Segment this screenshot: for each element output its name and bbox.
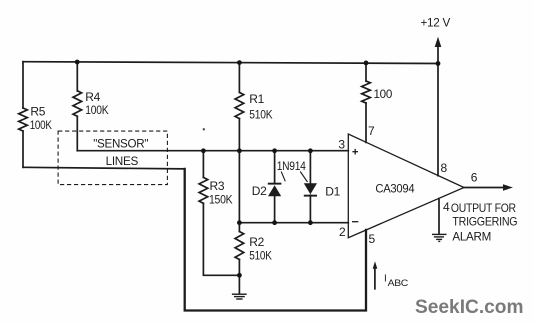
svg-text:4: 4	[443, 200, 450, 214]
svg-text:OUTPUT FOR: OUTPUT FOR	[451, 201, 516, 215]
svg-text:+12 V: +12 V	[421, 16, 451, 30]
svg-text:8: 8	[441, 161, 448, 175]
svg-text:1N914: 1N914	[277, 159, 306, 173]
svg-text:100K: 100K	[85, 103, 108, 117]
svg-text:D2: D2	[252, 184, 267, 198]
svg-text:R1: R1	[249, 92, 264, 106]
svg-text:100K: 100K	[30, 118, 52, 132]
svg-text:3: 3	[338, 137, 345, 151]
svg-text:2: 2	[339, 225, 346, 239]
svg-text:R4: R4	[85, 90, 100, 104]
svg-text:"SENSOR": "SENSOR"	[93, 137, 148, 151]
svg-text:R3: R3	[210, 179, 225, 193]
svg-text:ALARM: ALARM	[452, 229, 491, 243]
svg-text:7: 7	[368, 124, 375, 138]
svg-text:150K: 150K	[209, 193, 233, 207]
svg-text:I: I	[384, 273, 386, 284]
svg-text:510K: 510K	[249, 107, 272, 121]
svg-text:R5: R5	[30, 104, 45, 118]
svg-text:ABC: ABC	[388, 278, 409, 288]
svg-text:R2: R2	[249, 235, 264, 249]
svg-text:CA3094: CA3094	[375, 182, 414, 196]
svg-text:6: 6	[471, 171, 478, 185]
svg-text:5: 5	[369, 232, 376, 246]
svg-text:SeekIC.com: SeekIC.com	[415, 296, 524, 318]
svg-text:100: 100	[374, 87, 393, 101]
svg-text:LINES: LINES	[106, 154, 139, 168]
svg-text:TRIGGERING: TRIGGERING	[452, 215, 517, 229]
svg-text:D1: D1	[325, 184, 340, 198]
svg-text:510K: 510K	[249, 249, 272, 263]
